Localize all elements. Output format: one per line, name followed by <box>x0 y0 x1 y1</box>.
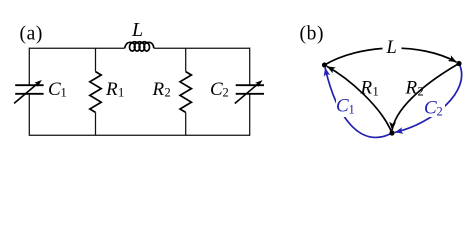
svg-text:R: R <box>105 79 118 100</box>
svg-text:1: 1 <box>61 86 67 100</box>
svg-text:(a): (a) <box>20 23 43 44</box>
wire top rail right of inductor <box>154 47 250 49</box>
edge C2 blue from node B to node G <box>395 64 462 133</box>
capacitor C1 plates <box>15 85 43 94</box>
svg-text:L: L <box>131 19 143 41</box>
resistor R2 zigzag <box>180 72 191 113</box>
svg-text:R: R <box>360 78 373 99</box>
arrowhead of R1 at node A <box>327 66 336 73</box>
node A (left) <box>322 62 327 67</box>
node G (bottom) <box>389 130 394 135</box>
svg-text:C: C <box>336 96 349 117</box>
svg-text:C: C <box>210 79 223 100</box>
svg-text:1: 1 <box>373 85 379 99</box>
svg-text:(b): (b) <box>300 23 325 44</box>
wire left edge below C1 <box>28 94 30 136</box>
arrowhead of L at node B <box>448 55 457 62</box>
white gap for C1 label <box>336 99 358 117</box>
wire R1 branch bottom lead <box>95 112 97 135</box>
svg-text:1: 1 <box>349 103 355 117</box>
svg-text:R: R <box>152 79 165 100</box>
svg-text:L: L <box>386 38 397 58</box>
edge R1 from node G to node A <box>327 66 392 133</box>
arrowhead of R2 at node G <box>389 122 396 131</box>
wire top rail left of inductor <box>29 47 124 49</box>
capacitor C1 variable arrow <box>14 80 42 103</box>
wire R1 branch top lead <box>95 48 97 71</box>
node B (right) <box>456 61 461 66</box>
edge R2 from node B to node G <box>392 64 459 131</box>
wire bottom rail <box>29 134 249 136</box>
svg-text:2: 2 <box>165 86 171 100</box>
capacitor C2 plates <box>236 85 264 94</box>
svg-text:2: 2 <box>223 86 229 100</box>
inductor L coil <box>125 42 154 51</box>
svg-text:C: C <box>48 79 61 100</box>
edge L arc from node A to node B <box>325 48 457 65</box>
wire R2 branch top lead <box>185 48 187 71</box>
wire right edge above C2 <box>249 48 251 86</box>
arrowhead of C2 at node G <box>395 127 404 134</box>
capacitor C2 variable arrow <box>235 80 263 103</box>
wire left edge above C1 <box>28 48 30 86</box>
svg-text:2: 2 <box>437 105 443 119</box>
wire right edge below C2 <box>249 94 251 136</box>
wire R2 branch bottom lead <box>185 112 187 135</box>
resistor R1 zigzag <box>90 72 101 113</box>
svg-text:1: 1 <box>118 86 124 100</box>
white gap for L label <box>383 36 402 51</box>
svg-text:C: C <box>424 98 437 119</box>
svg-text:2: 2 <box>418 85 424 99</box>
arrowhead of C1 at node A <box>324 68 331 77</box>
svg-text:R: R <box>405 78 418 99</box>
edge C1 blue from node G to node A <box>325 68 392 138</box>
white gap for C2 label <box>423 101 445 117</box>
